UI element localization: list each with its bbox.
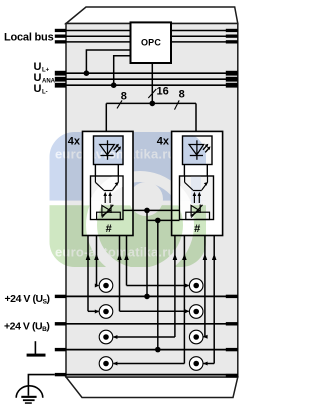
svg-text:8: 8 xyxy=(121,91,127,103)
svg-text:U: U xyxy=(34,83,42,95)
svg-text:ANA: ANA xyxy=(42,79,56,85)
svg-text:#: # xyxy=(194,223,200,235)
svg-text:8: 8 xyxy=(179,89,185,101)
svg-text:4x: 4x xyxy=(157,136,170,148)
svg-text:L+: L+ xyxy=(42,68,50,74)
svg-text:OPC: OPC xyxy=(141,38,161,48)
svg-text:Local bus: Local bus xyxy=(4,32,54,44)
svg-text:+24 V (US): +24 V (US) xyxy=(5,293,50,306)
svg-text:+24 V (UB): +24 V (UB) xyxy=(4,321,49,334)
svg-text:#: # xyxy=(106,223,112,235)
svg-text:euro-avtomatika.ru: euro-avtomatika.ru xyxy=(55,147,176,162)
svg-text:16: 16 xyxy=(157,86,169,98)
svg-text:L-: L- xyxy=(42,90,48,96)
svg-text:4x: 4x xyxy=(68,136,81,148)
